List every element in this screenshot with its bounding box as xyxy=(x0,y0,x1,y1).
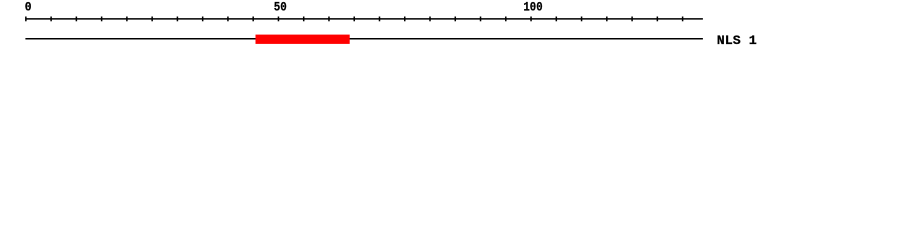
ruler tick 130 xyxy=(682,17,684,22)
ruler tick 85 xyxy=(454,17,456,22)
ruler tick 5 xyxy=(50,17,52,22)
ruler tick 65 xyxy=(353,17,355,22)
ruler tick 10 xyxy=(75,17,77,22)
svg-text:100: 100 xyxy=(523,0,542,15)
domain box NLS 1 (red) xyxy=(256,35,350,44)
svg-text:50: 50 xyxy=(274,0,287,15)
ruler tick 55 xyxy=(303,17,305,22)
ruler tick 0 xyxy=(25,17,27,22)
svg-text:NLS 1: NLS 1 xyxy=(717,33,757,48)
ruler tick 115 xyxy=(606,17,608,22)
ruler tick 80 xyxy=(429,17,431,22)
ruler tick 50 xyxy=(277,17,279,22)
ruler tick 25 xyxy=(151,17,153,22)
ruler tick 35 xyxy=(202,17,204,22)
ruler tick 90 xyxy=(480,17,482,22)
ruler tick 30 xyxy=(176,17,178,22)
ruler tick 15 xyxy=(101,17,103,22)
ruler tick 40 xyxy=(227,17,229,22)
ruler tick 125 xyxy=(656,17,658,22)
ruler axis line xyxy=(25,18,703,20)
ruler tick 75 xyxy=(404,17,406,22)
ruler tick 110 xyxy=(581,17,583,22)
ruler tick 70 xyxy=(378,17,380,22)
ruler tick 105 xyxy=(555,17,557,22)
ruler tick 100 xyxy=(530,17,532,22)
sequence backbone line xyxy=(25,38,703,40)
ruler tick 45 xyxy=(252,17,254,22)
ruler tick 60 xyxy=(328,17,330,22)
ruler tick 20 xyxy=(126,17,128,22)
ruler tick 120 xyxy=(631,17,633,22)
ruler tick 95 xyxy=(505,17,507,22)
svg-text:0: 0 xyxy=(25,0,32,15)
